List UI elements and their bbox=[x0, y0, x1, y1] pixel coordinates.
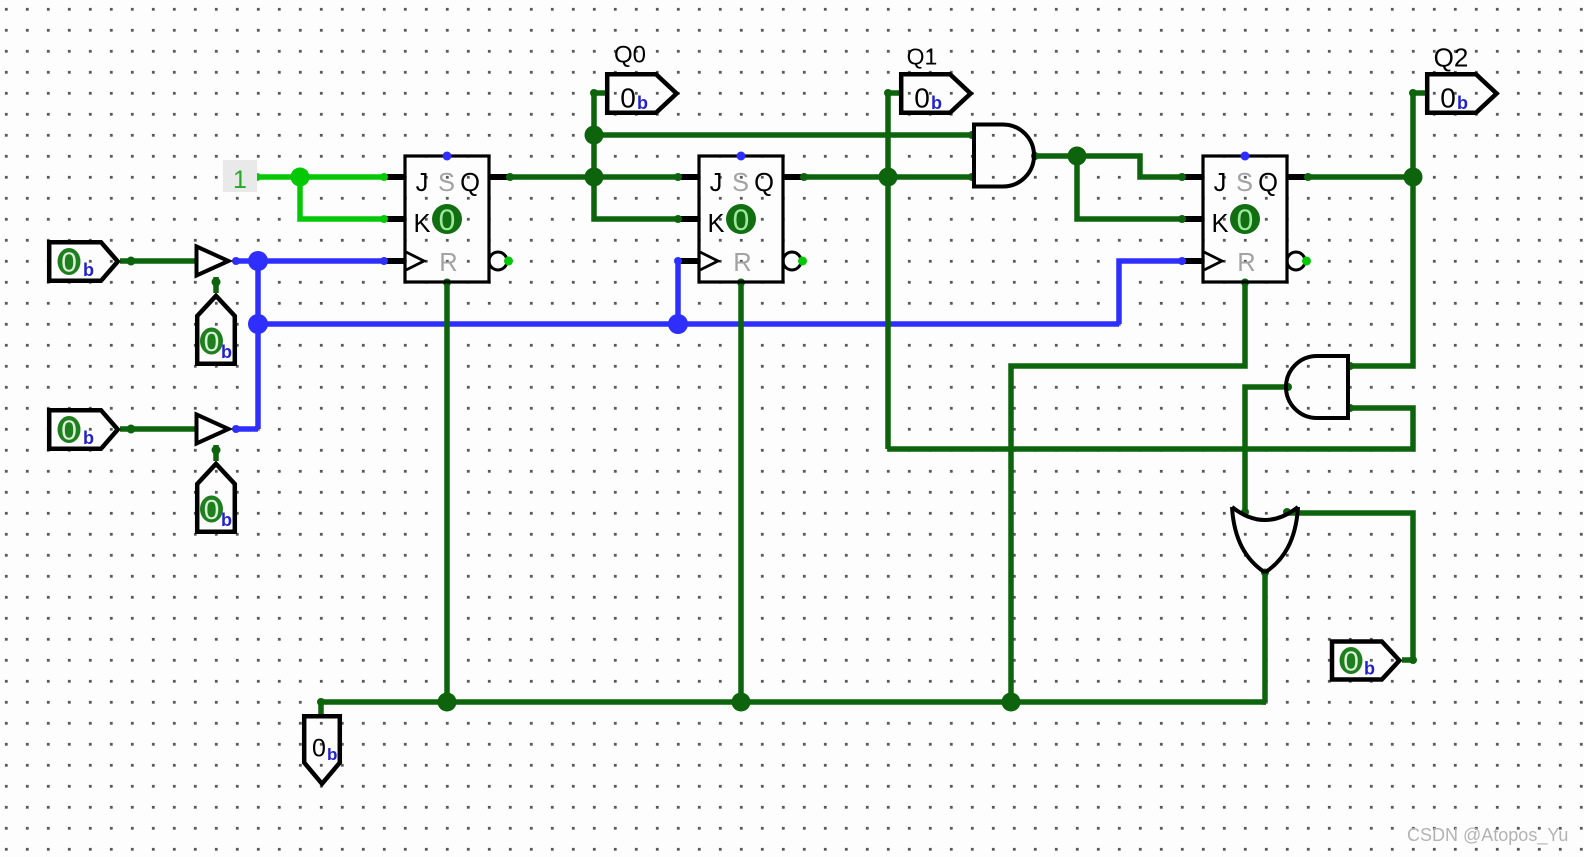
wire end caps at FF R pins bbox=[443, 279, 451, 287]
wire: AND1 output row 156 bbox=[1035, 156, 1182, 177]
svg-text:0: 0 bbox=[1343, 646, 1359, 677]
svg-text:J: J bbox=[1214, 169, 1227, 197]
junction at (594,177) bbox=[585, 168, 604, 187]
FF2 pin stubs J,K,CLK,Q bbox=[680, 177, 802, 261]
wire: Q0 net vertical x=594 from pin row 93 down to row 219 then to FF2 K bbox=[594, 93, 678, 219]
junction at (678,324) blue bbox=[668, 314, 688, 334]
wire: buffer B2 output to x=258 (blue, row 429) bbox=[236, 426, 258, 432]
wire: buffer B1 output to FF1 clock (blue, row 261) bbox=[236, 258, 384, 264]
svg-text:0: 0 bbox=[61, 247, 77, 278]
junction at (594,135) bbox=[585, 126, 604, 145]
junction at (1011,702) bbox=[1002, 693, 1021, 712]
svg-text:Q: Q bbox=[460, 169, 480, 197]
svg-text:R: R bbox=[1237, 249, 1255, 277]
junction at (888,177) bbox=[879, 168, 898, 187]
wire: branch down from node at (300,177) to K row bbox=[300, 177, 384, 219]
svg-text:b: b bbox=[83, 428, 94, 448]
svg-text:b: b bbox=[637, 93, 648, 113]
wire end caps bright green bbox=[253, 173, 261, 181]
svg-text:b: b bbox=[221, 342, 232, 362]
junction at (1413,177) bbox=[1404, 168, 1423, 187]
wire: reset rail row 702 bbox=[321, 699, 1266, 705]
output pin Q0 bbox=[607, 42, 676, 114]
svg-text:S: S bbox=[438, 169, 455, 197]
constant 1 bbox=[223, 160, 257, 194]
svg-text:Q0: Q0 bbox=[614, 42, 646, 69]
flip-flop U1 (JK) bbox=[405, 152, 513, 283]
junction at (447,702) bbox=[438, 693, 457, 712]
wire: blue drop from FF2 clock to rail (x=678) bbox=[675, 261, 681, 324]
buffer B1 bbox=[197, 247, 229, 276]
OR gate G3 (south facing) bbox=[1232, 507, 1298, 573]
wire: Q0 net row 135 to AND1 upper input bbox=[594, 132, 972, 138]
svg-text:S: S bbox=[1236, 169, 1253, 197]
svg-text:Q2: Q2 bbox=[1434, 43, 1469, 73]
svg-text:R: R bbox=[733, 249, 751, 277]
svg-text:b: b bbox=[221, 510, 232, 530]
svg-text:b: b bbox=[1457, 93, 1468, 113]
svg-text:0: 0 bbox=[61, 415, 77, 446]
wire end caps blue bbox=[232, 257, 240, 265]
wire: down to probe pin P1 under buffer B1 bbox=[213, 277, 219, 293]
probe pin P2 (0b, north) bbox=[197, 464, 235, 532]
svg-text:0: 0 bbox=[312, 735, 326, 763]
svg-text:R: R bbox=[439, 249, 457, 277]
wire: FF3 R path down x=1245, left row 366, down x=1011 to reset rail bbox=[1011, 282, 1245, 702]
flip-flop U2 (JK) bbox=[699, 152, 807, 283]
junction at (300,177) bright green bbox=[291, 168, 310, 187]
wire: input pin 2 to buffer B2 input (row 429) bbox=[120, 426, 197, 432]
svg-text:1: 1 bbox=[233, 166, 247, 194]
svg-text:CSDN @Atopos_Yu: CSDN @Atopos_Yu bbox=[1407, 825, 1568, 846]
buffer B2 bbox=[197, 415, 229, 444]
input pin IN1 (0b, east) bbox=[49, 242, 118, 281]
wire: FF2 Q output row 177 to AND1 lower input bbox=[804, 174, 972, 180]
wire: stub down to bottom output pin bbox=[318, 702, 324, 715]
input pin IN2 (0b, east) bbox=[49, 410, 118, 449]
svg-text:J: J bbox=[710, 169, 723, 197]
svg-text:0: 0 bbox=[733, 204, 750, 237]
wire: stub to output pin Q0 bbox=[594, 90, 606, 96]
svg-text:K: K bbox=[413, 210, 430, 238]
svg-text:0: 0 bbox=[1440, 83, 1456, 114]
wire: blue vertical x=258 from row 261 down to row 429 bbox=[255, 261, 261, 429]
junction at (258,324) blue bbox=[248, 314, 268, 334]
wire end caps dark green Q0/Q1/Q2 nets bbox=[590, 89, 598, 97]
wire: Q1 net long run row 449 to x=1413 up to AND2 lower input bbox=[888, 408, 1413, 449]
wire: Q1 net vertical x=888 from row 93 to row 449 bbox=[885, 93, 891, 449]
svg-text:b: b bbox=[931, 93, 942, 113]
junction at (1077,156) bbox=[1068, 147, 1087, 166]
wire: FF1 R vertical x=447 bbox=[444, 282, 450, 702]
svg-text:S: S bbox=[732, 169, 749, 197]
output pin Q1 bbox=[901, 44, 970, 114]
wire: stub to output pin Q2 bbox=[1413, 90, 1426, 96]
svg-text:0: 0 bbox=[204, 326, 220, 357]
flip-flop U3 (JK) bbox=[1203, 152, 1311, 283]
AND gate G1 bbox=[974, 125, 1034, 187]
svg-text:0: 0 bbox=[204, 494, 220, 525]
wire: FF2 R vertical x=741 bbox=[738, 282, 744, 702]
svg-text:0: 0 bbox=[439, 204, 456, 237]
wire: input pin 1 to buffer B1 input (row 261) bbox=[120, 258, 197, 264]
wire end caps dark green left side bbox=[127, 257, 136, 266]
output pin OUT (0b, south) bbox=[304, 716, 340, 784]
wire: AND1 output branch down x=1077 to FF3 K bbox=[1077, 156, 1182, 219]
wire: long blue clock rail row 324 bbox=[258, 321, 1119, 327]
svg-text:b: b bbox=[327, 745, 337, 764]
svg-text:0: 0 bbox=[1237, 204, 1254, 237]
wire: down to probe pin P2 under buffer B2 bbox=[213, 445, 219, 461]
svg-text:K: K bbox=[707, 210, 724, 238]
svg-text:0: 0 bbox=[620, 83, 636, 114]
wire: OR gate output down x=1266 bbox=[1265, 572, 1266, 702]
wire: blue rail up to FF3 clock bbox=[1119, 261, 1182, 324]
FF3 pin stubs J,K,CLK,Q bbox=[1184, 177, 1306, 261]
FF1 pin stubs J,K,CLK,Q bbox=[386, 177, 508, 261]
svg-text:0: 0 bbox=[914, 83, 930, 114]
output pin Q2 bbox=[1427, 43, 1496, 114]
wire: FF1 Q output along row 177 to FF2 J bbox=[510, 174, 678, 180]
wire: bottom-right input pin up to OR gate right input bbox=[1287, 513, 1413, 660]
wire: Q1 pin stub bbox=[888, 90, 900, 96]
svg-text:Q1: Q1 bbox=[907, 44, 938, 70]
probe pin P1 (0b, north) bbox=[197, 296, 235, 364]
wire: FF3 Q output row 177 to x=1413 node bbox=[1308, 174, 1413, 180]
junction at (741,702) bbox=[732, 693, 751, 712]
wire end caps dark green AND2/OR region bbox=[1284, 383, 1292, 391]
junction at (258,261) blue bbox=[248, 251, 268, 271]
svg-text:J: J bbox=[416, 169, 429, 197]
svg-text:Q: Q bbox=[1258, 169, 1278, 197]
wire: AND2 output to OR gate left input via x=1245 bbox=[1245, 387, 1288, 513]
svg-text:b: b bbox=[83, 260, 94, 280]
svg-text:K: K bbox=[1211, 210, 1228, 238]
wire: Q2 net vertical x=1413 from pin row 93 down to AND2 upper input bbox=[1350, 93, 1413, 366]
svg-text:Q: Q bbox=[754, 169, 774, 197]
AND gate G2 (west facing) bbox=[1286, 356, 1348, 418]
input pin IN3 (0b, east, bottom right) bbox=[1332, 642, 1399, 680]
wire: constant 1 to J of FF1 (row 177, bright green) bbox=[257, 174, 384, 180]
svg-text:b: b bbox=[1364, 659, 1375, 679]
